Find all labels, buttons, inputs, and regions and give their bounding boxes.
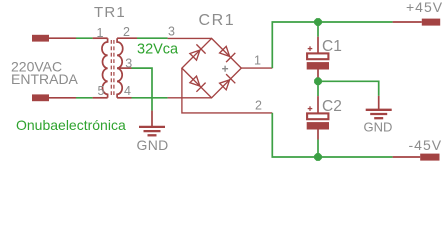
wire C1 top connection [317, 22, 319, 37]
junction node mid rail [315, 78, 322, 85]
svg-text:C1: C1 [322, 38, 342, 55]
wire C2 bottom connection [317, 140, 319, 158]
svg-text:32Vca: 32Vca [137, 41, 179, 57]
svg-text:3: 3 [125, 56, 132, 70]
wire net L to TR1 pin1 [76, 37, 93, 39]
svg-text:5: 5 [98, 84, 105, 98]
terminal J2 220VAC neutral [32, 94, 76, 101]
ground symbol GND1 [139, 111, 165, 136]
capacitor C1 [307, 37, 329, 78]
wire net -45V rail [272, 113, 392, 157]
svg-text:GND: GND [364, 119, 393, 134]
svg-text:C2: C2 [322, 98, 342, 115]
transformer TR1 [93, 38, 137, 98]
svg-text:3: 3 [168, 24, 175, 38]
terminal +45V [393, 19, 441, 26]
wire net +45V rail [272, 22, 392, 68]
junction node +45V rail [315, 19, 322, 26]
wire net mid to ground [318, 81, 379, 96]
ground symbol GND2 [366, 96, 392, 118]
terminal J1 220VAC line [32, 35, 76, 42]
svg-text:ENTRADA: ENTRADA [11, 71, 79, 87]
CR1 plus polarity marking [222, 66, 228, 72]
junction node -45V rail [315, 154, 322, 161]
svg-text:-45V: -45V [409, 137, 443, 153]
svg-text:TR1: TR1 [94, 4, 126, 21]
capacitor C2 [307, 96, 329, 139]
svg-text:1: 1 [254, 53, 261, 67]
wire net secondary bottom AC [132, 97, 168, 99]
svg-text:Onubaelectrónica: Onubaelectrónica [16, 117, 126, 133]
svg-text:GND: GND [137, 137, 169, 153]
terminal -45V [393, 154, 440, 161]
svg-text:4: 4 [124, 84, 131, 98]
wire C2 top connection [317, 81, 319, 96]
svg-text:CR1: CR1 [199, 12, 236, 29]
wire net secondary top AC [137, 37, 168, 39]
bridge rectifier CR1 [168, 38, 273, 113]
wire net center tap to ground [132, 68, 153, 111]
svg-text:+45V: +45V [406, 0, 443, 15]
svg-text:1: 1 [97, 26, 104, 40]
svg-text:2: 2 [123, 25, 130, 39]
svg-text:2: 2 [255, 99, 262, 113]
wire net N to TR1 pin5 [76, 97, 93, 99]
